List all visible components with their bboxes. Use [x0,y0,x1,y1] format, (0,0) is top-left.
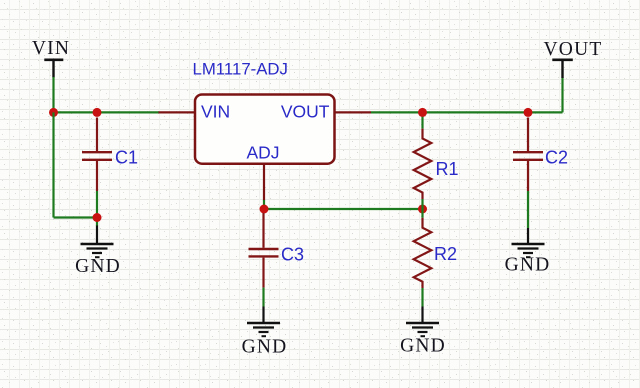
svg-text:VIN: VIN [201,102,230,122]
svg-text:VIN: VIN [32,38,70,59]
svg-text:R1: R1 [436,159,459,179]
wire C2 bottom [527,191,529,228]
wire left loop vertical [52,112,54,217]
ground symbol under R2 [406,307,439,337]
svg-text:C2: C2 [545,148,568,168]
svg-text:GND: GND [75,256,121,277]
wire input rail [54,111,160,113]
pin VOUT stub [335,111,372,113]
junction at ADJ node [260,205,269,214]
capacitor C1 [82,118,112,192]
svg-text:VOUT: VOUT [544,39,603,60]
capacitor C3 [249,213,279,288]
resistor R1 [414,112,432,209]
svg-text:ADJ: ADJ [246,143,279,163]
wire C1 bottom [96,191,98,226]
wire VOUT riser [561,78,563,113]
junction at C1 ground [93,213,102,222]
svg-text:VOUT: VOUT [281,102,330,122]
svg-text:C3: C3 [281,245,304,265]
pin ADJ stub [263,164,265,201]
wire C3 bottom [262,288,264,307]
port VOUT [544,39,603,78]
svg-text:LM1117-ADJ: LM1117-ADJ [193,60,288,79]
junction at R1 top [418,108,427,117]
pin VIN stub [159,111,196,113]
svg-text:GND: GND [400,336,446,357]
IC U1 LM1117-ADJ body [195,95,335,164]
ground symbol under C2 [512,228,545,257]
ground symbol under C3 [247,307,280,337]
capacitor C2 [513,118,543,192]
svg-text:GND: GND [242,337,288,358]
junction at VIN drop [49,108,58,117]
svg-text:R2: R2 [434,244,457,264]
junction at C2 top [524,108,533,117]
svg-text:GND: GND [505,254,551,275]
wire left loop horizontal [54,216,98,218]
wire VIN port to input rail [52,77,54,112]
wire output rail [371,111,563,113]
junction at R divider [418,205,427,214]
wire mid rail [264,208,423,210]
svg-text:C1: C1 [115,148,138,168]
resistor R2 [414,209,432,307]
port VIN [32,38,70,78]
ground symbol under C1 [81,226,114,258]
junction at C1 top [93,108,102,117]
wire ADJ to mid rail [263,200,265,209]
